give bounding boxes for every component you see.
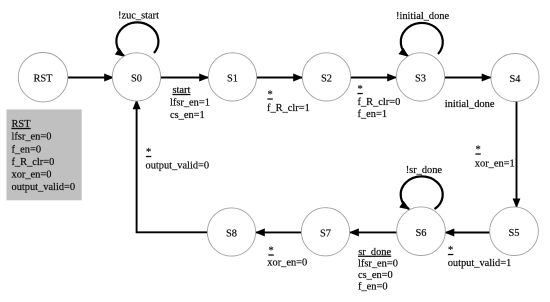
svg-text:sr_done: sr_done [358, 247, 391, 258]
svg-text:lfsr_en=0: lfsr_en=0 [12, 132, 52, 143]
svg-text:S6: S6 [416, 228, 427, 239]
svg-text:start: start [173, 85, 191, 96]
svg-text:!sr_done: !sr_done [406, 165, 443, 176]
svg-text:S3: S3 [415, 73, 426, 84]
svg-text:S5: S5 [509, 228, 520, 239]
svg-text:cs_en=1: cs_en=1 [170, 110, 205, 121]
svg-text:*: * [476, 145, 481, 156]
svg-text:!zuc_start: !zuc_start [118, 11, 159, 22]
svg-text:S7: S7 [320, 228, 331, 239]
svg-text:f_en=1: f_en=1 [358, 109, 388, 120]
svg-text:lfsr_en=0: lfsr_en=0 [358, 258, 398, 269]
svg-text:xor_en=0: xor_en=0 [267, 258, 307, 269]
svg-text:f_en=0: f_en=0 [358, 281, 388, 292]
svg-text:*: * [269, 246, 274, 257]
svg-text:S4: S4 [510, 74, 522, 85]
svg-text:xor_en=1: xor_en=1 [475, 158, 515, 169]
svg-text:S8: S8 [226, 229, 237, 240]
svg-text:*: * [146, 147, 151, 158]
svg-text:initial_done: initial_done [445, 99, 495, 110]
svg-text:lfsr_en=1: lfsr_en=1 [170, 98, 210, 109]
svg-text:output_valid=1: output_valid=1 [448, 258, 512, 269]
svg-text:RST: RST [12, 119, 32, 130]
svg-text:xor_en=0: xor_en=0 [12, 170, 52, 181]
svg-text:S2: S2 [321, 73, 332, 84]
svg-text:!initial_done: !initial_done [396, 11, 449, 22]
svg-text:*: * [268, 90, 273, 101]
svg-text:f_en=0: f_en=0 [12, 144, 42, 155]
svg-text:output_valid=0: output_valid=0 [12, 182, 76, 193]
svg-text:f_R_clr=0: f_R_clr=0 [358, 97, 401, 108]
svg-text:output_valid=0: output_valid=0 [146, 161, 210, 172]
svg-text:*: * [448, 245, 453, 256]
svg-text:cs_en=0: cs_en=0 [358, 270, 393, 281]
svg-text:*: * [358, 84, 363, 95]
svg-text:S1: S1 [227, 73, 238, 84]
svg-text:S0: S0 [131, 73, 142, 84]
svg-text:RST: RST [33, 74, 53, 85]
svg-text:f_R_clr=1: f_R_clr=1 [267, 103, 310, 114]
svg-text:f_R_clr=0: f_R_clr=0 [12, 157, 55, 168]
